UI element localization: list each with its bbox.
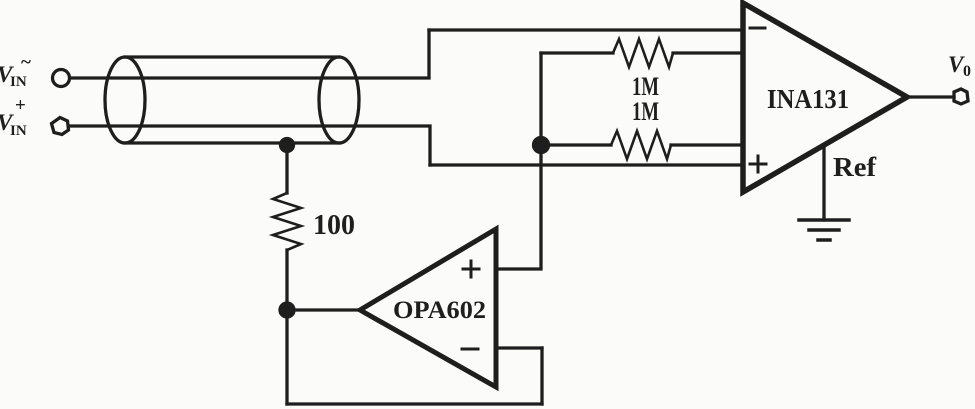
svg-text:100: 100 (313, 209, 355, 241)
pin Ref wire (822, 146, 825, 220)
wire INA131 output (907, 95, 954, 98)
svg-text:IN: IN (10, 74, 27, 90)
wire feedback up to OPA602 minus (540, 348, 543, 404)
wire bottom 1M right lead (671, 143, 743, 146)
terminal Vo (954, 89, 968, 104)
resistor 100 (273, 193, 301, 250)
svg-text:OPA602: OPA602 (393, 297, 486, 324)
label Vin+ (0, 95, 27, 139)
op-amp U1 INA131 (743, 3, 907, 192)
pin OPA602 plus (463, 261, 479, 277)
shielded cable (cylinder shield) (105, 57, 359, 143)
wire top 1M left lead (541, 51, 613, 54)
terminal Vin- (top input) (53, 70, 70, 87)
wire OPA602 plus input to guard column (496, 53, 541, 269)
svg-text:~: ~ (21, 52, 31, 73)
wire shield to resistor (285, 145, 288, 193)
node shield tap junction (281, 139, 294, 152)
node 1M junction (534, 138, 549, 153)
label Vo (948, 52, 971, 80)
resistor R1 1M (top) (613, 39, 673, 67)
svg-text:0: 0 (963, 63, 971, 80)
svg-text:Ref: Ref (833, 152, 877, 182)
pin INA131 plus (750, 156, 766, 172)
wire top 1M right lead (673, 51, 743, 54)
wire node down to feedback bottom (285, 310, 288, 404)
wire top input to step (70, 30, 429, 78)
wire feedback bottom horizontal (287, 402, 542, 405)
wire plus-input horizontal (430, 163, 743, 166)
svg-text:IN: IN (10, 123, 27, 139)
op-amp OPA602 (360, 229, 496, 387)
wire minus-input horizontal (429, 28, 743, 31)
svg-text:1M: 1M (632, 97, 659, 126)
svg-text:INA131: INA131 (767, 84, 849, 114)
svg-text:+: + (15, 95, 26, 116)
pin OPA602 minus (462, 348, 478, 351)
node guard drive junction (280, 303, 294, 317)
wire OPA602 minus input (496, 346, 542, 349)
resistor R2 1M (bottom) (611, 131, 671, 159)
wire bottom 1M left lead (541, 143, 611, 146)
pin INA131 minus (750, 27, 765, 30)
wire bottom input to step (69, 126, 430, 165)
wire resistor to node (285, 250, 288, 310)
label Vin- (0, 52, 31, 90)
terminal Vin+ (bottom input) (52, 118, 69, 135)
wire OPA602 output to node (287, 308, 360, 311)
ground (799, 220, 849, 240)
